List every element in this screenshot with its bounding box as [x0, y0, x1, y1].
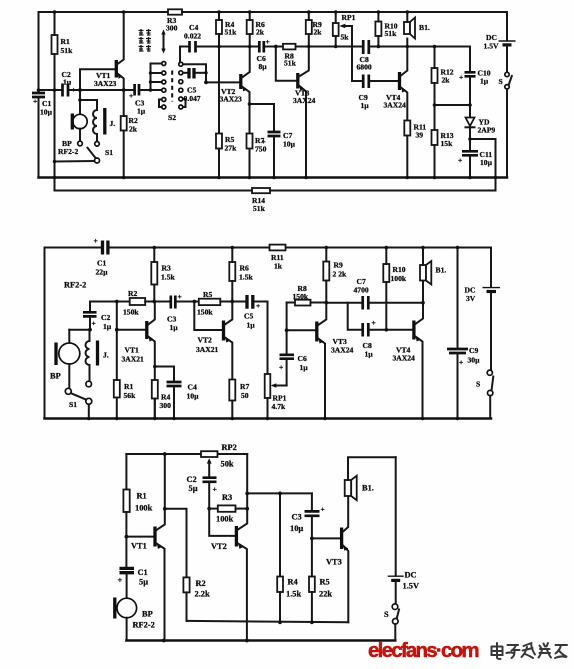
svg-text:1µ: 1µ [103, 322, 112, 331]
resistor R1 100k [123, 490, 129, 513]
resistor R4 51k [216, 20, 222, 34]
svg-text:6800: 6800 [357, 63, 372, 72]
svg-text:3AX24: 3AX24 [331, 346, 354, 355]
capacitor C9 30u [457, 248, 459, 348]
resistor R2 150k [130, 298, 146, 305]
capacitor C3 1u [171, 296, 176, 309]
resistor R2 2k [121, 116, 127, 131]
wire: R6 top [249, 12, 251, 20]
svg-text:R7: R7 [240, 382, 249, 391]
svg-text:+: + [213, 485, 217, 494]
transistor VT1 [126, 536, 153, 538]
resistor R9 2k [306, 20, 312, 34]
svg-text:VT2: VT2 [211, 542, 227, 551]
svg-text:VT1: VT1 [131, 542, 147, 551]
transistor VT2 3AX21 [194, 302, 222, 331]
svg-text:+: + [459, 73, 463, 82]
svg-text:C5: C5 [244, 312, 253, 321]
resistor R1 56k [114, 380, 120, 398]
wire: S2 left lower link [159, 100, 162, 108]
svg-text:+: + [458, 156, 462, 165]
svg-text:1k: 1k [274, 262, 283, 271]
transistor VT2 3AX23 [239, 74, 242, 89]
resistor R13 15k [432, 130, 438, 145]
loudspeaker B1 [345, 480, 352, 496]
capacitor C3 1u [135, 84, 139, 96]
svg-text:B1.: B1. [419, 23, 430, 32]
svg-text:22k: 22k [319, 590, 332, 599]
svg-text:R3: R3 [222, 493, 232, 502]
resistor R4 300 [152, 380, 158, 399]
wire: R1/S1 vertical x=54.5 [54, 12, 56, 35]
switch S [392, 604, 398, 610]
svg-text:4.7k: 4.7k [272, 402, 286, 411]
capacitor C10 1u [469, 47, 471, 72]
battery DC 3V [490, 248, 492, 287]
microphone BP [69, 329, 90, 331]
svg-text:RF2-2: RF2-2 [64, 281, 86, 290]
battery DC 1.5V [395, 457, 397, 575]
svg-text:1µ: 1µ [480, 77, 489, 86]
wire: mic/transformer feed [80, 90, 97, 110]
svg-text:elecfans·com: elecfans·com [368, 639, 479, 662]
wire: R3 drop and base lead [209, 509, 235, 536]
svg-text:2k: 2k [256, 28, 265, 37]
svg-text:S: S [499, 77, 503, 86]
svg-text:1µ: 1µ [63, 78, 72, 87]
resistor R10 51k [375, 22, 381, 37]
svg-text:51k: 51k [385, 29, 398, 38]
svg-text:R5: R5 [320, 578, 330, 587]
svg-text:RP2: RP2 [222, 443, 237, 452]
svg-text:50: 50 [241, 391, 249, 400]
svg-text:C2: C2 [187, 475, 197, 484]
svg-text:300: 300 [166, 24, 178, 33]
wire: VT1 base riser and base lead [80, 69, 115, 90]
junction dots (middle circuit) [87, 246, 459, 421]
svg-text:51k: 51k [61, 46, 74, 55]
resistor R5 22k [309, 577, 315, 593]
resistor R12 2k [432, 68, 438, 83]
wire: left frame vertical (C1 gap) [38, 12, 40, 92]
resistor R7 50 [229, 380, 235, 401]
wire: VT2 base line [206, 81, 239, 83]
wire: supply rail segments [45, 247, 101, 249]
potentiometer RP1 5k [333, 23, 339, 36]
svg-text:C1: C1 [97, 259, 106, 268]
wire: loop right riser [495, 139, 497, 191]
wire: feedback loop line [55, 190, 253, 192]
svg-text:S1: S1 [105, 148, 113, 157]
svg-text:100k: 100k [391, 274, 407, 283]
svg-text:51k: 51k [225, 28, 238, 37]
resistor R5 27k [216, 134, 222, 149]
svg-text:15k: 15k [441, 139, 454, 148]
svg-text:1µ: 1µ [137, 107, 146, 116]
transformer J [89, 330, 91, 341]
capacitor C5 0.047 [189, 68, 194, 79]
wire: R4/R5 vertical [218, 12, 220, 20]
transistor VT1 3AX21 [117, 329, 146, 331]
svg-text:100k: 100k [135, 504, 153, 513]
svg-text:C2: C2 [101, 313, 110, 322]
resistor R6 1.5k [229, 262, 235, 281]
svg-text:R5: R5 [203, 290, 212, 299]
svg-text:3AX24: 3AX24 [393, 354, 416, 363]
resistor R3 (in rail) [168, 9, 182, 14]
svg-text:+: + [262, 137, 266, 146]
resistor R8 150k [287, 302, 295, 304]
wire: emitter/feedback line y=620.9 [187, 621, 349, 622]
capacitor C2 1u [63, 84, 69, 97]
svg-text:+: + [459, 358, 463, 367]
resistor R1 51k [52, 35, 58, 54]
svg-text:R10: R10 [393, 265, 406, 274]
wire: C5 to RP1 corner [255, 302, 268, 375]
wire: supply rail [126, 453, 201, 455]
svg-text:R1: R1 [124, 382, 133, 391]
svg-text:B1.: B1. [362, 484, 374, 493]
svg-text:+: + [94, 236, 98, 245]
svg-text:1µ: 1µ [300, 363, 309, 372]
svg-text:1.5k: 1.5k [286, 590, 301, 599]
svg-text:VT1: VT1 [125, 346, 140, 355]
svg-text:+: + [372, 318, 376, 327]
svg-text:+: + [118, 576, 123, 585]
switch S1 [71, 393, 87, 400]
svg-text:RF2-2: RF2-2 [133, 621, 155, 630]
wire: left frame vertical [44, 248, 46, 419]
wire: interstage line y=493.4 [247, 492, 312, 494]
wire: C2 to R2 input line [90, 302, 130, 312]
svg-text:DC: DC [405, 571, 417, 580]
svg-text:3AX24: 3AX24 [384, 101, 407, 110]
svg-text:3V: 3V [466, 294, 476, 303]
capacitor C11 10u [462, 151, 478, 155]
svg-text:C4: C4 [188, 383, 197, 392]
switch S (power) [505, 72, 509, 76]
resistor R8 51k (on line) [283, 44, 296, 50]
svg-text:5µ: 5µ [139, 578, 148, 587]
svg-text:100k: 100k [216, 515, 234, 524]
svg-text:S: S [384, 610, 389, 619]
svg-text:1µ: 1µ [170, 323, 179, 332]
switch S2 right contacts [179, 62, 183, 66]
svg-text:50k: 50k [221, 460, 234, 469]
capacitor C7 4700 [326, 302, 361, 304]
svg-text:R1: R1 [137, 492, 147, 501]
svg-text:3AX21: 3AX21 [122, 355, 145, 364]
wire: R5 to ground rail [218, 149, 220, 178]
switch S2 left contact rail [151, 64, 162, 91]
wire: y=90 line C2 to C3 [70, 89, 134, 91]
microphone BP RF2-2 [117, 598, 137, 618]
svg-text:BP: BP [50, 372, 61, 381]
wire: contact1 to C5 output node [183, 64, 206, 82]
switch S1 [88, 148, 96, 159]
svg-text:3AX21: 3AX21 [196, 345, 219, 354]
capacitor C5 1u [247, 295, 253, 309]
wire: top supply rail right segment [182, 11, 507, 13]
transistor VT4 3AX24 [412, 321, 415, 340]
svg-text:8µ: 8µ [259, 62, 268, 71]
resistor R11 1k (in rail) [270, 245, 286, 251]
capacitor C4 10u (emitter bypass) [155, 367, 174, 381]
svg-text:C9: C9 [469, 346, 478, 355]
capacitor C6 8u [259, 41, 264, 53]
svg-text:30µ: 30µ [468, 356, 481, 365]
svg-text:J.: J. [110, 119, 116, 128]
svg-text:2k: 2k [314, 28, 323, 37]
svg-text:BP: BP [142, 610, 153, 619]
tone selector text 低音/中音/高音 (stylised) [139, 29, 152, 51]
svg-text:5k: 5k [341, 33, 350, 42]
svg-text:10µ: 10µ [290, 524, 303, 533]
wire: y=90 line C3 to S2 feed [141, 89, 151, 91]
wire: R12/R13 to C10/YD link [435, 104, 471, 106]
svg-text:R3: R3 [162, 264, 171, 273]
wire: bottom ground rail [39, 176, 508, 179]
svg-text:B1.: B1. [436, 266, 447, 275]
svg-text:R2: R2 [196, 579, 206, 588]
resistor R3 100k [209, 508, 218, 510]
svg-text:3AX24: 3AX24 [293, 96, 316, 105]
svg-text:+: + [92, 319, 96, 328]
svg-text:+: + [321, 505, 325, 514]
svg-text:2k: 2k [442, 76, 451, 85]
svg-text:S1: S1 [69, 400, 77, 409]
capacitor C8 1u [348, 303, 362, 330]
wire: collector branch to R2 [165, 509, 187, 578]
svg-text:5µ: 5µ [189, 484, 198, 493]
svg-text:27k: 27k [225, 144, 238, 153]
capacitor C1 10u (electrolytic on left frame) [32, 93, 45, 97]
selector arrow [163, 33, 165, 50]
wire: S2 right lower link [183, 99, 186, 107]
microphone BP RF2-2 [73, 114, 87, 128]
svg-text:10µ: 10µ [187, 392, 200, 401]
svg-text:4700: 4700 [354, 286, 369, 295]
svg-text:2 2k: 2 2k [333, 270, 347, 279]
wire: bottom ground rail [126, 639, 395, 642]
svg-text:S: S [476, 380, 480, 389]
wire: left frame vertical with R1 [125, 454, 127, 490]
potentiometer RP2 50k [201, 451, 218, 457]
svg-text:RF2-2: RF2-2 [58, 147, 78, 156]
transformer J (coil and core) [93, 110, 97, 134]
svg-text:VT3: VT3 [326, 558, 342, 567]
svg-text:10µ: 10µ [283, 140, 296, 149]
resistor R2 2.2k [183, 577, 189, 592]
svg-text:39: 39 [416, 131, 424, 140]
diode YD 2AP9 [466, 118, 475, 127]
switch S2 left contacts [162, 62, 166, 66]
wire: S1 bottom lead y=161.5 [55, 160, 95, 163]
loudspeaker B1 [420, 265, 426, 281]
capacitor C7 10u (emitter bypass) [250, 104, 275, 131]
wire: C8 to C10 branch [370, 46, 470, 48]
resistor R5 150k [199, 299, 221, 305]
watermark text 电子发烧友 (stylised) [492, 643, 568, 659]
capacitor C2 5u [203, 478, 217, 482]
loudspeaker B1 [404, 22, 410, 34]
svg-text:1.5V: 1.5V [484, 42, 499, 51]
resistor R14 51k (feedback loop) [252, 188, 270, 193]
capacitor C9 1u [352, 80, 362, 82]
svg-text:R9: R9 [334, 261, 343, 270]
wire: C3 to R5 [177, 301, 199, 303]
wire: C4 to C6 [197, 46, 258, 48]
junction dots (top circuit) [37, 10, 498, 179]
resistor R7 750 [247, 134, 253, 149]
svg-text:RP1: RP1 [342, 13, 356, 22]
resistor R3 1.5k [151, 262, 157, 285]
svg-text:10µ: 10µ [40, 108, 53, 117]
resistor R9 2.2k [323, 262, 329, 281]
switch S (power) [487, 370, 492, 375]
capacitor C4 0.022 [190, 41, 196, 53]
svg-text:1µ: 1µ [247, 321, 256, 330]
resistor R11 39 [404, 121, 410, 136]
wire: YD node to loop riser [470, 138, 496, 140]
capacitor C1 22u (in rail) [103, 241, 108, 255]
wire: C6 to C8 [265, 46, 362, 48]
svg-text:150k: 150k [197, 308, 213, 317]
switch S2 slider (dashed) [171, 71, 173, 102]
resistor R4 1.5k [279, 493, 281, 576]
wire: VT1 emitter to bottom rail through R2 [123, 90, 125, 116]
svg-text:1µ: 1µ [361, 101, 370, 110]
svg-text:+: + [33, 97, 37, 106]
wire: R1 vertical [116, 302, 118, 381]
svg-text:R4: R4 [288, 578, 299, 587]
svg-text:1.5k: 1.5k [161, 273, 175, 282]
svg-text:+: + [279, 363, 283, 372]
svg-text:3AX23: 3AX23 [220, 95, 243, 104]
wire: contact2 to C5 [183, 72, 187, 74]
svg-text:1µ: 1µ [365, 350, 374, 359]
svg-text:0.047: 0.047 [184, 94, 201, 103]
svg-text:150k: 150k [123, 308, 139, 317]
wire: input line y=90 C1 to C2 [39, 89, 62, 91]
svg-text:S2: S2 [168, 113, 176, 122]
svg-text:2k: 2k [129, 125, 138, 134]
resistor R6 2k [247, 20, 253, 34]
svg-text:2AP9: 2AP9 [478, 126, 496, 135]
resistor R10 100k [383, 264, 389, 282]
wire: C4 drop to top-right contact [180, 47, 188, 63]
svg-text:51k: 51k [253, 204, 266, 213]
svg-text:300: 300 [160, 401, 172, 410]
transistor VT3 3AX24 [287, 329, 316, 331]
svg-text:2.2k: 2.2k [195, 590, 210, 599]
svg-text:51k: 51k [284, 59, 297, 68]
svg-text:J.: J. [103, 351, 109, 360]
capacitor C1 5u [120, 568, 135, 572]
potentiometer RP1 4.7k [265, 374, 271, 398]
svg-text:56k: 56k [124, 391, 137, 400]
wire: R2 to R3 node [145, 301, 170, 303]
svg-text:+: + [178, 292, 182, 301]
svg-text:R2: R2 [128, 289, 137, 298]
svg-text:3AX23: 3AX23 [94, 79, 117, 88]
svg-text:VT2: VT2 [198, 336, 213, 345]
transistor VT2 [235, 526, 238, 547]
svg-text:150k: 150k [293, 292, 309, 301]
wire: bottom ground rail [45, 417, 492, 420]
wire: top supply rail left segment [39, 11, 169, 13]
svg-text:1.5k: 1.5k [239, 273, 253, 282]
transistor VT3 [312, 537, 340, 539]
svg-text:C6: C6 [298, 354, 307, 363]
svg-text:0.022: 0.022 [184, 32, 201, 41]
svg-text:C3: C3 [292, 513, 302, 522]
wire: R5 to C5 [220, 301, 245, 303]
transistor VT4 3AX24 [398, 72, 401, 90]
capacitor C8 6800 [363, 40, 369, 54]
capacitor C3 10u [311, 493, 313, 509]
wire: R9 top [308, 12, 310, 20]
transistor VT1 3AX23 [115, 60, 118, 78]
transistor VT3 3AX24 [276, 47, 297, 81]
svg-text:22µ: 22µ [96, 268, 109, 277]
svg-text:R6: R6 [240, 264, 249, 273]
svg-text:+: + [129, 91, 133, 100]
wire: C5 to node [196, 72, 206, 74]
battery DC 1.5V [506, 12, 508, 40]
svg-text:C1: C1 [138, 568, 148, 577]
svg-text:10µ: 10µ [480, 158, 493, 167]
junction dots (bottom circuit) [125, 452, 314, 642]
svg-text:+: + [266, 37, 270, 46]
svg-text:1.5V: 1.5V [403, 582, 420, 591]
capacitor C6 1u [286, 360, 288, 386]
capacitor C2 1u [83, 312, 97, 316]
svg-text:R1: R1 [61, 37, 70, 46]
